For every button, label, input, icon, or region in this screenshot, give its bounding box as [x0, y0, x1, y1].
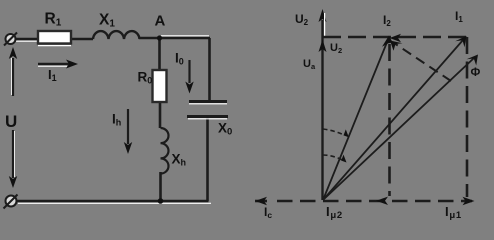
svg-text:A: A	[155, 13, 166, 30]
svg-text:U: U	[5, 112, 17, 131]
svg-text:Ф: Ф	[471, 67, 481, 79]
